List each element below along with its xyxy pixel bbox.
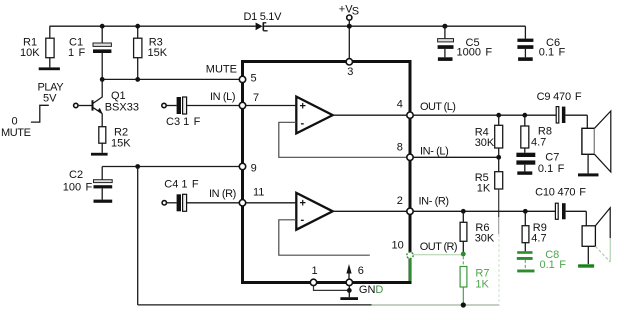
wire terminal to C3: [166, 105, 176, 107]
svg-text:30K: 30K: [475, 232, 495, 244]
svg-text:D1 5.1V: D1 5.1V: [244, 11, 283, 23]
svg-text:2: 2: [397, 195, 403, 207]
node R9 junction: [523, 209, 528, 214]
node gnd junction: [347, 288, 352, 293]
op-amp U1a: [296, 97, 332, 134]
wire pin11 to opamp2 +: [246, 202, 297, 204]
capacitor C5: [438, 24, 493, 59]
capacitor C4: [164, 179, 199, 212]
wire ground rail gray: [372, 304, 500, 306]
resistor R2: [99, 126, 131, 153]
svg-text:+: +: [300, 101, 306, 113]
capacitor C8 green: [517, 249, 566, 271]
wire IN-(R) row: [413, 210, 555, 212]
node rail junction: [461, 302, 466, 307]
pin 7: [239, 102, 245, 108]
svg-text:C4 1 F: C4 1 F: [164, 179, 199, 191]
svg-text:5V: 5V: [43, 92, 57, 104]
wire OUT(R) green faint: [413, 254, 463, 256]
wire pin1 elbow to gnd: [314, 286, 350, 291]
capacitor C1: [68, 24, 111, 80]
svg-text:0.1 F: 0.1 F: [539, 46, 566, 58]
node R6/R7 junction green: [461, 252, 466, 257]
svg-text:1000 F: 1000 F: [457, 46, 493, 58]
node IN(R) input terminal: [162, 201, 166, 205]
svg-text:0.1 F: 0.1 F: [540, 259, 567, 271]
svg-text:C9 470 F: C9 470 F: [537, 91, 582, 103]
wire C3 to pin7: [187, 105, 241, 107]
svg-text:-: -: [301, 214, 305, 226]
pin 4: [407, 112, 413, 118]
svg-text:IN (R): IN (R): [209, 188, 236, 200]
wire ground rail black: [138, 304, 372, 306]
wire terminal to C4: [167, 202, 177, 204]
capacitor C3: [166, 97, 201, 128]
ground (below C7): [517, 171, 532, 174]
resistor R5: [475, 157, 503, 304]
node +Vs terminal: [339, 3, 359, 58]
wire drop to ground rail: [137, 167, 139, 305]
svg-text:C2: C2: [69, 169, 83, 181]
svg-text:1K: 1K: [475, 279, 489, 291]
svg-text:1K: 1K: [477, 183, 491, 195]
svg-text:S: S: [352, 6, 359, 18]
wire C10 down to speaker: [585, 211, 587, 226]
svg-text:C10 470 F: C10 470 F: [535, 187, 586, 199]
gnd arrow: [346, 264, 351, 279]
svg-text:IN (L): IN (L): [210, 91, 235, 103]
wire rail corner down to C6: [524, 26, 526, 38]
svg-text:100 F: 100 F: [63, 181, 93, 193]
ground (below R2): [91, 153, 108, 156]
svg-text:5: 5: [251, 73, 257, 85]
ground (speaker R) green: [578, 264, 594, 268]
resistor R7 green: [460, 256, 489, 305]
ground (below C6): [518, 57, 533, 61]
resistor R8: [521, 115, 552, 153]
resistor R3: [134, 24, 168, 80]
wire opamp2 out to pin2: [333, 210, 407, 212]
resistor R6: [460, 211, 495, 252]
pin 9: [239, 163, 245, 169]
svg-text:3: 3: [347, 66, 353, 78]
svg-text:1 F: 1 F: [68, 47, 86, 59]
pin 11: [239, 200, 245, 206]
svg-text:11: 11: [253, 187, 264, 199]
svg-text:MUTE: MUTE: [1, 127, 31, 139]
wire C9 down to speaker: [586, 115, 588, 128]
ground (below C2): [94, 200, 113, 203]
capacitor C10: [535, 187, 586, 220]
svg-text:IN- (R): IN- (R): [419, 196, 449, 208]
svg-text:30K: 30K: [475, 137, 495, 149]
node R4/R5 junction: [496, 155, 501, 160]
wire pin7 to opamp1 +: [246, 105, 297, 107]
svg-text:1: 1: [312, 265, 318, 277]
svg-text:+: +: [300, 198, 306, 210]
pin 2: [407, 208, 413, 214]
wire top rail left: [50, 25, 256, 27]
svg-text:0: 0: [12, 116, 18, 128]
svg-text:MUTE: MUTE: [206, 64, 237, 76]
capacitor C6: [517, 37, 565, 59]
op-amp U1b: [296, 193, 332, 230]
pin 1: [310, 279, 316, 285]
node junction C1/collector: [100, 77, 105, 82]
svg-text:10: 10: [392, 240, 404, 252]
node R4 junction: [496, 113, 501, 118]
svg-text:OUT (R): OUT (R): [420, 241, 457, 253]
svg-text:15K: 15K: [148, 47, 168, 59]
node junction R3: [135, 77, 140, 82]
wire opamp2 feedback open end: [279, 220, 370, 255]
wire pin9 row to C2: [102, 166, 241, 168]
resistor R9: [522, 211, 547, 251]
pin 3: [346, 59, 352, 65]
svg-text:C7: C7: [545, 151, 559, 163]
wire IC right edge green segment: [409, 258, 412, 281]
pin 8: [407, 154, 413, 160]
wire MUTE row: [102, 78, 241, 80]
svg-text:6: 6: [358, 265, 364, 277]
IC U1 box: [243, 62, 411, 283]
node R8 junction: [522, 113, 527, 118]
transistor Q1 BSX33: [74, 79, 139, 126]
node junction to ground rail: [135, 164, 140, 169]
ground (below R1): [39, 67, 60, 70]
svg-text:4.7: 4.7: [531, 232, 546, 244]
svg-text:0.1 F: 0.1 F: [538, 163, 565, 175]
svg-text:8: 8: [397, 142, 403, 154]
waveform play/mute symbol: [1, 82, 64, 139]
wire OUT(L) row: [413, 114, 556, 116]
svg-text:15K: 15K: [111, 137, 131, 149]
svg-text:Q1: Q1: [111, 90, 126, 102]
capacitor C9: [537, 91, 588, 123]
resistor R1: [20, 26, 54, 67]
svg-text:GND: GND: [359, 284, 384, 296]
svg-text:-: -: [301, 118, 305, 130]
resistor R4: [475, 115, 503, 157]
svg-text:10K: 10K: [20, 47, 40, 59]
ground (below C5): [438, 57, 453, 61]
capacitor C2: [63, 167, 112, 200]
pin 6: [346, 279, 352, 285]
node IN(L) input terminal: [162, 103, 166, 107]
svg-text:C3 1 F: C3 1 F: [166, 116, 201, 128]
svg-text:9: 9: [251, 163, 257, 175]
ground (IC pins): [340, 297, 358, 300]
wire opamp1 feedback to pin8: [279, 122, 407, 157]
ground (below C8) green: [517, 270, 534, 273]
wire pin6 down: [348, 286, 350, 298]
node R6 junction: [461, 209, 466, 214]
pin 5: [239, 76, 245, 82]
svg-text:4: 4: [397, 99, 403, 111]
svg-text:BSX33: BSX33: [105, 102, 139, 114]
wire top rail right: [264, 25, 526, 27]
svg-text:OUT (L): OUT (L): [420, 101, 455, 113]
svg-text:IN- (L): IN- (L): [420, 145, 448, 157]
svg-text:7: 7: [253, 92, 259, 104]
capacitor C7: [516, 151, 564, 175]
pin 10 green: [407, 252, 413, 258]
speaker right channel: [582, 208, 610, 264]
speaker left channel: [582, 111, 611, 173]
diode D1 zener: [244, 11, 283, 31]
wire C4 to pin11: [187, 202, 241, 204]
svg-text:4.7: 4.7: [531, 136, 546, 148]
wire opamp1 out to pin4: [333, 114, 407, 116]
ground (speaker L): [578, 173, 599, 176]
wire IN-(L) row: [413, 156, 499, 158]
